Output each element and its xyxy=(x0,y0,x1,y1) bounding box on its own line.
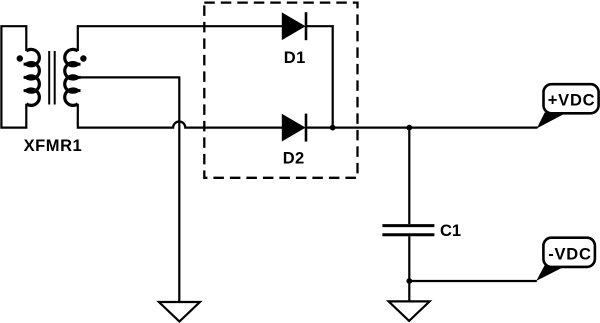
diode D2 xyxy=(282,114,306,142)
svg-text:+VDC: +VDC xyxy=(548,92,595,110)
diode D1 xyxy=(282,12,306,40)
svg-text:C1: C1 xyxy=(440,222,461,240)
transformer phase dot primary xyxy=(17,55,23,61)
ground (center tap) xyxy=(159,302,200,322)
svg-text:-VDC: -VDC xyxy=(548,245,591,263)
svg-text:XFMR1: XFMR1 xyxy=(24,137,83,155)
svg-text:D1: D1 xyxy=(284,49,306,67)
ground (C1) xyxy=(389,301,430,321)
wire: C1 bottom plate down to ground xyxy=(408,236,410,301)
transformer phase dot secondary xyxy=(80,55,86,61)
wire: output node to +VDC flag xyxy=(306,126,538,128)
wire: D1 cathode to output node xyxy=(306,26,333,127)
junction dot at D1/D2 cathodes xyxy=(330,125,336,131)
wire: node down to C1 top plate xyxy=(408,128,410,224)
net flag -VDC xyxy=(536,238,595,281)
junction dot at -VDC branch xyxy=(406,278,412,284)
dashed box (rectifier) xyxy=(204,3,357,178)
transformer core xyxy=(48,51,50,105)
net flag +VDC xyxy=(537,84,599,128)
svg-text:D2: D2 xyxy=(283,150,305,168)
wire: primary left loop xyxy=(1,26,26,127)
capacitor C1 xyxy=(382,226,434,235)
junction dot at C1 top xyxy=(406,125,412,131)
wire: center tap right then down to ground xyxy=(78,77,180,302)
wire: secondary bottom to D2 anode with hop xyxy=(78,104,282,128)
transformer XFMR1 primary winding xyxy=(26,49,39,105)
transformer XFMR1 secondary winding xyxy=(65,49,78,105)
wire: secondary top to D1 anode xyxy=(78,26,282,51)
wire: branch to -VDC flag xyxy=(409,280,537,282)
